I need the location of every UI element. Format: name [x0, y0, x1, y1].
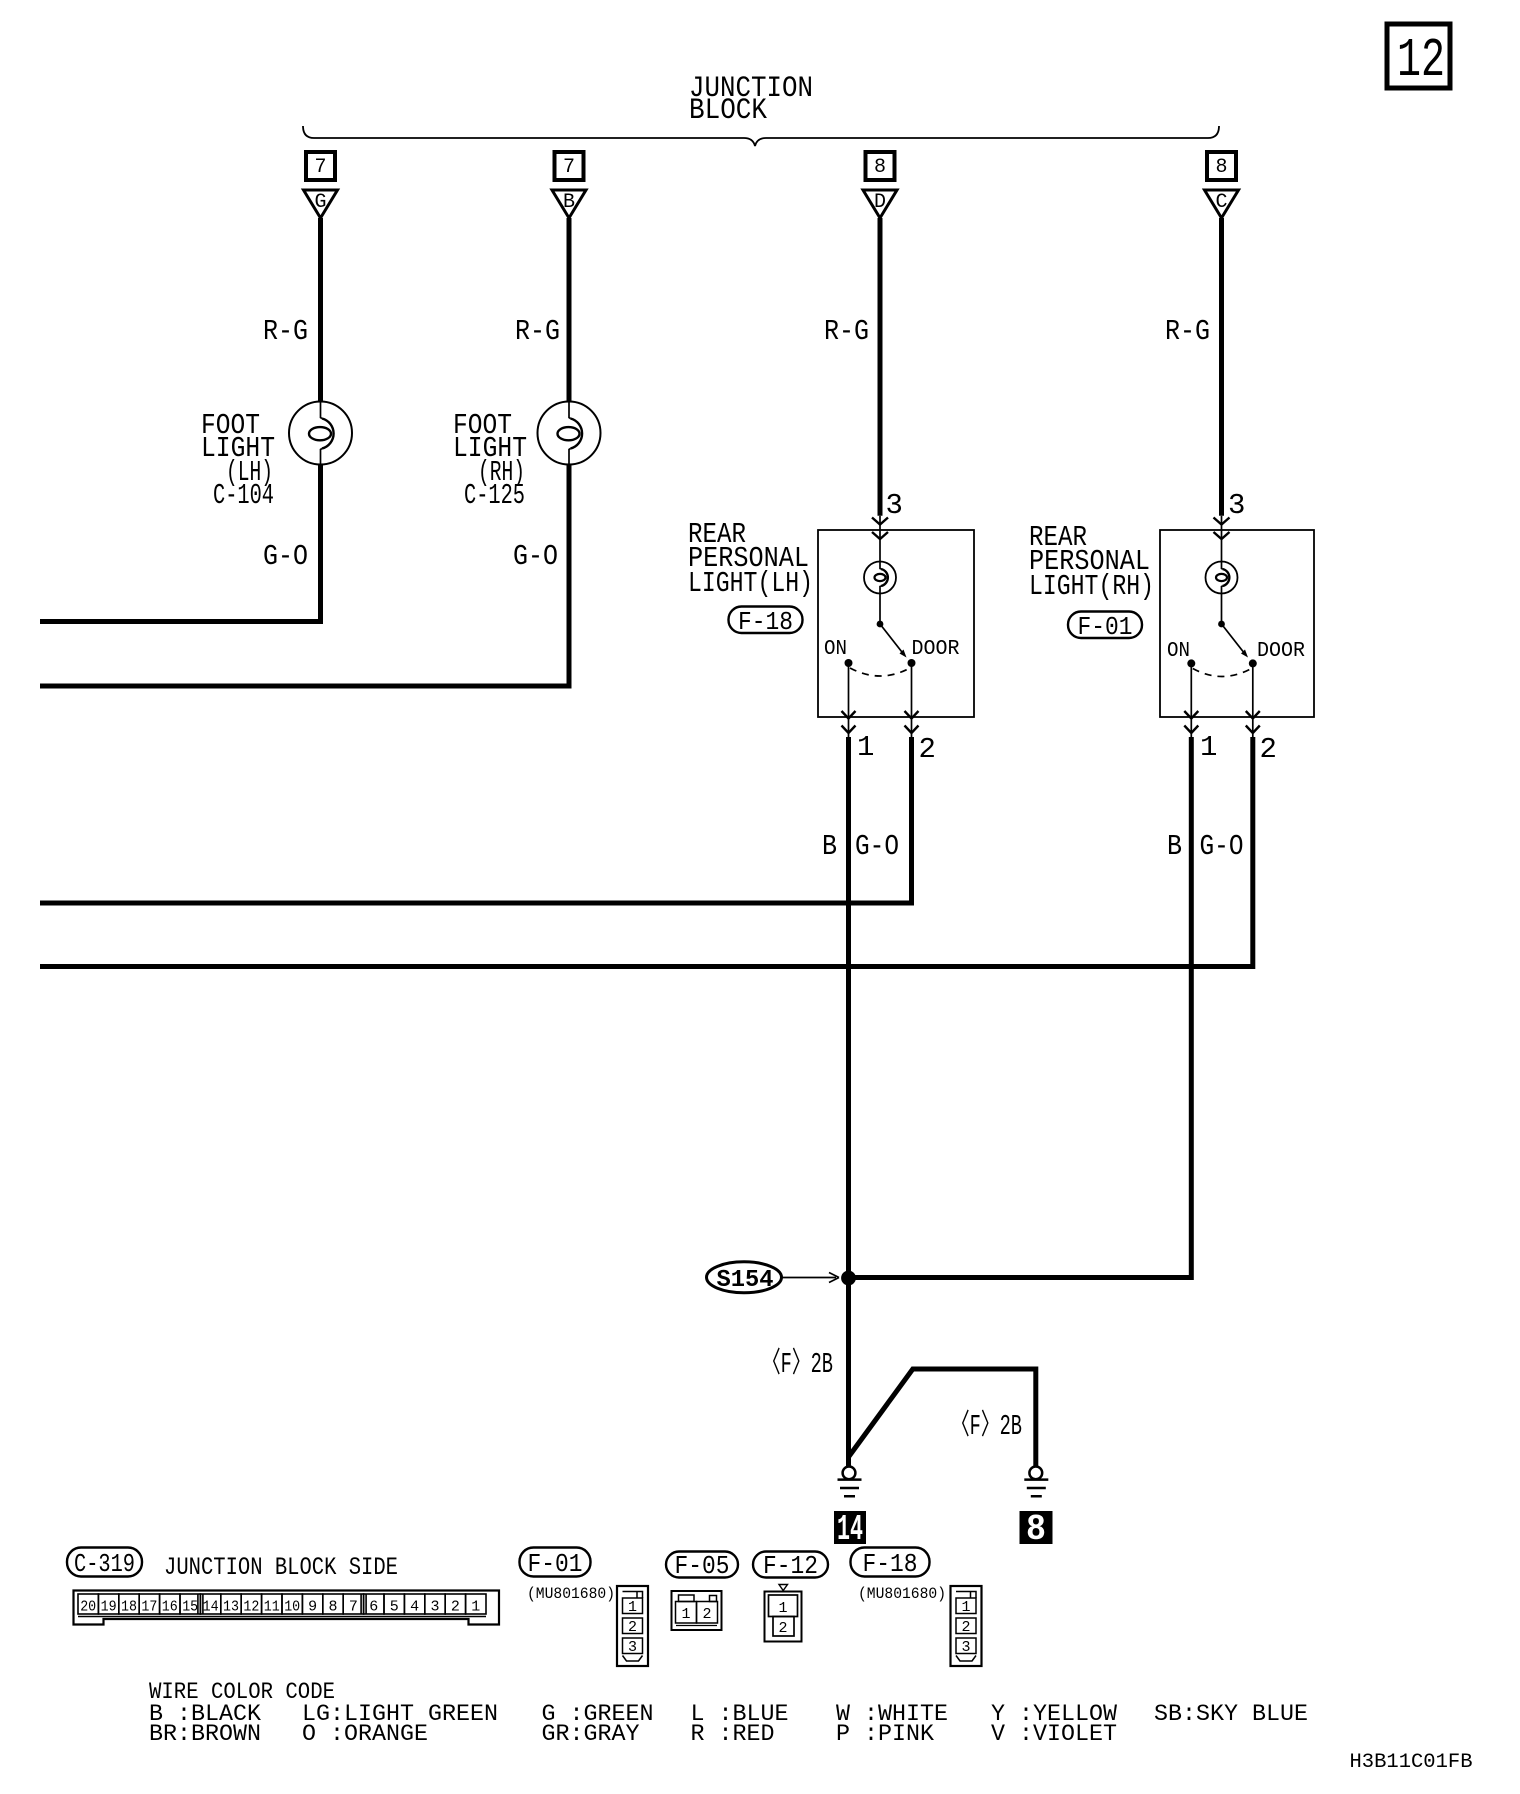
svg-text:1: 1 — [1200, 731, 1217, 764]
svg-text:17: 17 — [141, 1599, 157, 1616]
svg-text:G: G — [314, 191, 326, 214]
wire col A lower to left edge — [40, 465, 321, 622]
svg-text:3: 3 — [431, 1599, 440, 1616]
connector pin box 8 (col C) — [866, 152, 895, 180]
svg-text:〈F〉2B: 〈F〉2B — [762, 1347, 833, 1381]
connector label F-12 — [753, 1551, 828, 1581]
svg-text:B: B — [1167, 830, 1182, 863]
svg-text:BR:BROWN: BR:BROWN — [149, 1721, 261, 1747]
svg-text:V :VIOLET: V :VIOLET — [991, 1721, 1117, 1747]
label JUNCTION BLOCK — [689, 72, 813, 128]
splice S154 — [707, 1262, 782, 1294]
wire col C thick — [878, 218, 883, 516]
svg-text:R-G: R-G — [263, 315, 308, 348]
terminal triangle B — [552, 190, 586, 218]
svg-text:12: 12 — [243, 1599, 259, 1616]
svg-text:(MU801680): (MU801680) — [858, 1585, 946, 1603]
svg-text:20: 20 — [80, 1599, 96, 1616]
junction block brace — [303, 126, 1219, 146]
svg-text:GR:GRAY: GR:GRAY — [542, 1721, 640, 1747]
svg-text:B: B — [822, 830, 837, 863]
svg-text:C-319: C-319 — [74, 1549, 135, 1579]
wire col A upper — [318, 218, 323, 402]
svg-text:R-G: R-G — [515, 315, 560, 348]
svg-text:G-O: G-O — [855, 830, 899, 863]
connector label F-01 (bottom) — [520, 1548, 591, 1580]
connector F-12 body — [765, 1585, 802, 1642]
svg-text:10: 10 — [284, 1599, 300, 1616]
ground ref box 14 — [834, 1509, 866, 1550]
svg-text:5: 5 — [390, 1599, 399, 1616]
svg-text:8: 8 — [874, 156, 886, 179]
svg-text:2: 2 — [628, 1619, 637, 1636]
connector F-05 body — [672, 1591, 722, 1630]
svg-text:(MU801680): (MU801680) — [527, 1585, 615, 1603]
connector F-01 body — [617, 1586, 648, 1666]
svg-text:S154: S154 — [717, 1267, 774, 1294]
connector F-18 body — [951, 1586, 982, 1666]
svg-text:R-G: R-G — [1165, 315, 1210, 348]
svg-text:1: 1 — [961, 1599, 970, 1616]
svg-text:19: 19 — [101, 1599, 117, 1616]
svg-text:BLOCK: BLOCK — [689, 94, 767, 128]
legend WIRE COLOR CODE — [149, 1679, 1308, 1747]
svg-text:4: 4 — [410, 1599, 419, 1616]
wire col D thick — [1219, 218, 1224, 516]
connector label C-319 — [67, 1548, 142, 1580]
foot light RH bulb C-125 — [538, 402, 601, 465]
connector label F-05 — [666, 1551, 738, 1581]
svg-text:1: 1 — [681, 1606, 690, 1623]
svg-text:7: 7 — [314, 156, 326, 179]
svg-text:F-05: F-05 — [675, 1551, 730, 1581]
svg-text:1: 1 — [471, 1599, 480, 1616]
svg-text:11: 11 — [264, 1599, 280, 1616]
svg-text:2: 2 — [961, 1619, 970, 1636]
svg-text:3: 3 — [1228, 489, 1245, 522]
ground branch wire — [849, 1369, 1036, 1467]
label FOOT LIGHT (LH) C-104 — [201, 409, 275, 512]
svg-text:B: B — [563, 191, 575, 214]
rear personal light RH F-01 — [1160, 489, 1314, 766]
svg-text:3: 3 — [628, 1639, 637, 1656]
label FOOT LIGHT (RH) C-125 — [453, 409, 527, 512]
svg-text:〈F〉2B: 〈F〉2B — [951, 1409, 1022, 1443]
terminal triangle C — [1205, 190, 1239, 218]
terminal triangle D — [863, 190, 897, 218]
svg-text:3: 3 — [886, 489, 903, 522]
svg-text:C-104: C-104 — [213, 479, 274, 512]
svg-text:F-01: F-01 — [1078, 612, 1133, 642]
wire LH pin2 G-O to left edge — [40, 737, 912, 903]
ground ref box 8 — [1020, 1509, 1053, 1550]
svg-text:R-G: R-G — [824, 315, 869, 348]
svg-text:15: 15 — [182, 1599, 198, 1616]
svg-text:ON: ON — [1167, 640, 1190, 663]
connector C-319 under-line — [78, 1616, 486, 1618]
wire RH pin1 B down and left to junction — [849, 737, 1192, 1278]
terminal triangle G — [304, 190, 338, 218]
svg-text:12: 12 — [1397, 29, 1445, 92]
wire LH pin1 B down — [846, 737, 851, 1467]
svg-text:7: 7 — [563, 156, 575, 179]
connector pin box 8 (col D) — [1207, 152, 1236, 180]
svg-text:F-18: F-18 — [863, 1549, 918, 1579]
svg-text:JUNCTION BLOCK SIDE: JUNCTION BLOCK SIDE — [164, 1553, 398, 1582]
svg-text:1: 1 — [628, 1599, 637, 1616]
svg-text:DOOR: DOOR — [1257, 640, 1305, 663]
svg-text:2: 2 — [702, 1606, 711, 1623]
connector C-319 junction block connector body — [74, 1591, 500, 1625]
svg-text:8: 8 — [329, 1599, 338, 1616]
wire RH pin2 G-O to left edge — [40, 737, 1253, 967]
connector label F-01 — [1068, 612, 1142, 643]
svg-text:2: 2 — [778, 1620, 787, 1637]
svg-text:7: 7 — [349, 1599, 358, 1616]
svg-text:14: 14 — [203, 1599, 219, 1616]
svg-text:D: D — [874, 191, 886, 214]
rear personal light LH F-18 — [818, 489, 974, 766]
ground symbol 8 — [1024, 1467, 1048, 1497]
ground symbol 14 — [838, 1467, 862, 1497]
svg-text:13: 13 — [223, 1599, 239, 1616]
svg-text:ON: ON — [824, 638, 847, 661]
connector label F-18 (bottom) — [851, 1548, 930, 1580]
svg-text:16: 16 — [162, 1599, 178, 1616]
arrow S154 to junction — [782, 1273, 839, 1283]
svg-text:O :ORANGE: O :ORANGE — [302, 1721, 428, 1747]
svg-text:1: 1 — [778, 1600, 787, 1617]
svg-text:8: 8 — [1215, 156, 1227, 179]
svg-text:DOOR: DOOR — [912, 638, 960, 661]
svg-text:2: 2 — [1260, 733, 1277, 766]
connector label F-18 — [729, 607, 803, 638]
svg-text:F-18: F-18 — [738, 607, 793, 637]
svg-text:F-01: F-01 — [528, 1549, 583, 1579]
svg-text:1: 1 — [857, 731, 874, 764]
label REAR PERSONAL LIGHT(RH) — [1029, 521, 1154, 603]
svg-text:F-12: F-12 — [763, 1551, 818, 1581]
svg-text:G-O: G-O — [263, 540, 308, 573]
svg-text:LIGHT(RH): LIGHT(RH) — [1029, 570, 1154, 603]
svg-text:3: 3 — [961, 1639, 970, 1656]
junction dot S154 — [841, 1271, 856, 1286]
svg-text:G-O: G-O — [513, 540, 558, 573]
connector pin box 7 (col B) — [555, 152, 584, 180]
svg-text:6: 6 — [369, 1599, 378, 1616]
foot light LH bulb C-104 — [289, 402, 352, 465]
label REAR PERSONAL LIGHT(LH) — [688, 518, 813, 600]
svg-text:2: 2 — [451, 1599, 460, 1616]
svg-text:8: 8 — [1026, 1509, 1046, 1550]
page number box 12 — [1387, 24, 1450, 92]
connector pin box 7 (col A) — [306, 152, 335, 180]
svg-text:14: 14 — [837, 1509, 863, 1550]
svg-text:R :RED: R :RED — [691, 1721, 775, 1747]
svg-text:H3B11C01FB: H3B11C01FB — [1350, 1751, 1473, 1774]
wire col B upper — [567, 218, 572, 402]
svg-text:P :PINK: P :PINK — [836, 1721, 934, 1747]
svg-text:G-O: G-O — [1200, 830, 1244, 863]
svg-text:18: 18 — [121, 1599, 137, 1616]
wire col B lower to left edge — [40, 465, 569, 687]
svg-text:SB:SKY BLUE: SB:SKY BLUE — [1154, 1701, 1308, 1727]
connector C-319 pin row — [78, 1594, 486, 1616]
svg-text:C: C — [1215, 191, 1227, 214]
svg-text:LIGHT(LH): LIGHT(LH) — [688, 567, 813, 600]
svg-text:C-125: C-125 — [464, 479, 525, 512]
svg-text:2: 2 — [919, 733, 936, 766]
svg-text:9: 9 — [308, 1599, 317, 1616]
